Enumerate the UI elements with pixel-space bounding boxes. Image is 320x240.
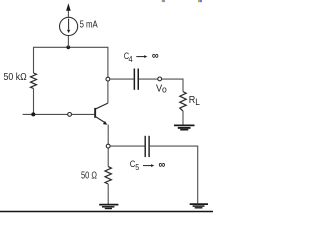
node junction on base line [31,112,35,116]
current source I 5 mA [60,17,78,35]
wire RL to ground [182,111,184,125]
ground bottom left [99,205,118,209]
svg-text:o: o [162,84,167,94]
wire emitter node to 50 Ohm resistor [107,148,109,166]
wire C5 to right corner and down [150,146,198,203]
wire top rail with left and right corners [34,47,108,77]
wire C4 to Vo node [139,78,158,80]
wire collector node to C4 [110,78,134,80]
svg-text:50 kΩ: 50 kΩ [4,72,27,83]
ground under RL [174,125,195,129]
node Vo open circle [158,77,162,81]
svg-text:5 mA: 5 mA [80,19,98,30]
node emitter open circle [106,144,110,148]
wire current source bottom lead [67,35,69,47]
wire Vo node to RL corner [162,79,183,92]
svg-text:∞: ∞ [159,159,166,171]
resistor RL [180,92,186,111]
capacitor C5 [145,136,150,157]
label C4 -> infinity [124,50,159,64]
node input terminal open circle [68,113,72,117]
wire emitter node to C5 [110,145,144,147]
wire base line left segment [23,113,68,115]
cropped text remnant 2 [198,0,202,2]
label RL [189,95,200,107]
label Vo [156,84,167,95]
supply arrow pointing up [66,3,71,11]
svg-text:5: 5 [135,163,139,172]
svg-text:4: 4 [129,55,134,64]
label C5 -> infinity [130,159,166,172]
svg-text:50 Ω: 50 Ω [81,170,97,181]
node junction of current source and top rail [66,45,70,49]
svg-text:∞: ∞ [152,50,159,62]
wire left vertical below resistor [33,89,35,115]
capacitor C4 [134,69,139,90]
wire emitter vertical above node [107,125,109,144]
node collector open circle [106,77,110,81]
svg-text:L: L [195,97,200,107]
cropped text remnant 1 [162,0,165,2]
wire base line right segment [72,113,95,115]
wire 50 Ohm resistor to ground [107,184,109,204]
resistor R2 50 Ohm [105,167,111,184]
resistor R1 50 kOhm [31,73,37,89]
wire current source top lead [67,10,69,17]
page rule at bottom [0,211,213,213]
wire collector vertical [107,81,109,103]
ground bottom right [190,204,208,208]
transistor Q1 [94,103,108,125]
